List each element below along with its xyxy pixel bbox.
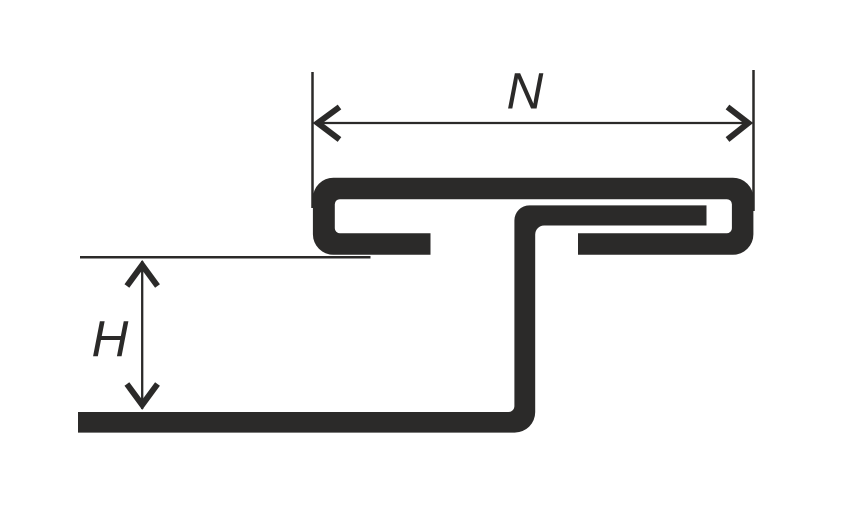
svg-text:N: N [507,62,544,119]
svg-text:H: H [92,310,129,367]
